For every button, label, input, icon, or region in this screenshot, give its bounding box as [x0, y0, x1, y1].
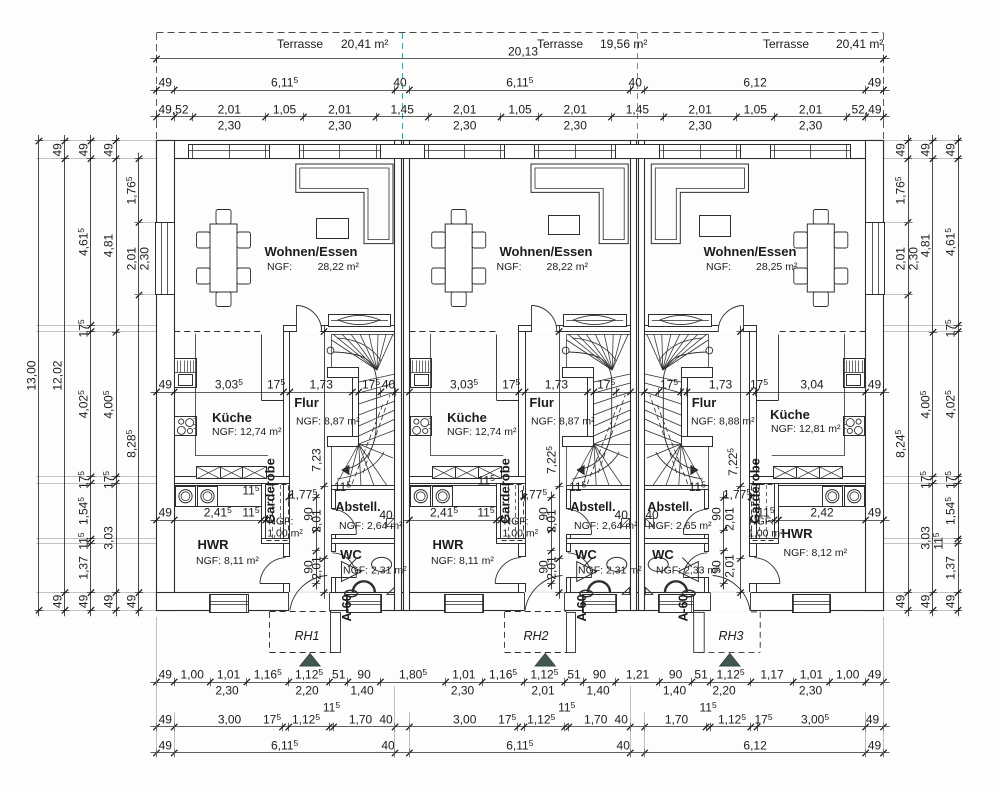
- svg-text:Terrasse: Terrasse: [277, 37, 323, 51]
- svg-text:49: 49: [919, 594, 933, 608]
- svg-text:51: 51: [567, 668, 581, 682]
- washbasin RH2: [607, 557, 627, 571]
- window bottom BW2: [347, 595, 382, 613]
- wall living south RH1: [322, 326, 395, 332]
- svg-text:1,00: 1,00: [836, 668, 860, 682]
- svg-text:NGF: 8,12 m²: NGF: 8,12 m²: [784, 547, 848, 559]
- wall storage/wc RH3: [645, 539, 709, 544]
- svg-text:49: 49: [159, 739, 173, 753]
- svg-text:1,70: 1,70: [584, 713, 608, 727]
- wall living south RH2: [557, 326, 631, 332]
- interior dim kitchen/hall RH2: [403, 392, 636, 394]
- svg-text:2,01: 2,01: [310, 556, 324, 580]
- wall living/kitchen RH1: [284, 326, 297, 332]
- svg-text:40: 40: [615, 508, 629, 522]
- stair dashed cut lines RH3: [650, 395, 677, 473]
- interior dim HWR RH1: [151, 520, 272, 522]
- svg-text:1,01: 1,01: [800, 668, 824, 682]
- washer dryer RH3: [779, 486, 866, 507]
- svg-text:13,00: 13,00: [25, 360, 39, 390]
- wall HWR/wardrobe RH3: [775, 484, 779, 539]
- svg-text:2,30: 2,30: [799, 119, 823, 133]
- svg-text:2,20: 2,20: [712, 684, 736, 698]
- hall doors dim RH3: [723, 492, 725, 590]
- svg-text:28,22 m²: 28,22 m²: [318, 261, 360, 273]
- svg-text:Garderobe: Garderobe: [498, 458, 513, 524]
- dimension chain bottom rooms: [151, 726, 890, 728]
- dimension chain top windows: [151, 116, 890, 118]
- chairs RH2: [451, 210, 466, 225]
- washbasin RH3: [648, 557, 668, 571]
- wall storage top RH1: [332, 486, 395, 490]
- svg-text:2,01: 2,01: [688, 103, 712, 117]
- svg-text:51: 51: [694, 668, 708, 682]
- porch dashed RH1: [269, 612, 271, 653]
- svg-text:90: 90: [709, 560, 723, 574]
- kitchen base counter RH2: [433, 467, 456, 479]
- extension lines left: [36, 140, 157, 142]
- svg-text:NGF: 12,81 m²: NGF: 12,81 m²: [771, 423, 841, 435]
- svg-text:A-60: A-60: [676, 594, 690, 621]
- wall living/kitchen RH2: [519, 326, 532, 332]
- outer wall top: [157, 141, 884, 159]
- dimension chain overall width 20,13: [151, 58, 890, 60]
- kitchen countertop edge RH2: [430, 334, 432, 456]
- svg-text:NGF: 12,74 m²: NGF: 12,74 m²: [212, 426, 282, 438]
- door living-hall RH3: [719, 326, 744, 332]
- svg-text:40: 40: [645, 508, 659, 522]
- outer wall left: [157, 141, 175, 611]
- stair walking line RH3: [663, 352, 707, 470]
- svg-text:49: 49: [159, 506, 173, 520]
- svg-text:49: 49: [894, 143, 908, 157]
- svg-text:2,30: 2,30: [453, 119, 477, 133]
- coffee table RH1: [317, 219, 349, 239]
- stairs RH3: [645, 334, 709, 336]
- terrace dashed outline top: [157, 32, 884, 34]
- toilet RH2: [577, 562, 597, 582]
- svg-text:2,30: 2,30: [215, 684, 239, 698]
- wall wardrobe bottom RH1: [262, 539, 290, 544]
- interior dim kitchen/hall RH3: [638, 392, 889, 394]
- svg-text:1,05: 1,05: [273, 103, 297, 117]
- window top W2: [300, 145, 381, 159]
- svg-text:NGF:: NGF:: [267, 261, 292, 273]
- svg-text:49: 49: [51, 143, 65, 157]
- svg-text:49: 49: [77, 143, 91, 157]
- svg-text:49: 49: [868, 76, 882, 90]
- svg-text:90: 90: [357, 668, 371, 682]
- svg-text:Wohnen/Essen: Wohnen/Essen: [500, 244, 593, 259]
- svg-text:1,37: 1,37: [77, 556, 91, 580]
- wardrobe closet RH3: [752, 485, 775, 541]
- sideboard with bowl RH1: [329, 315, 391, 327]
- dining table RH1: [210, 224, 237, 292]
- window top W1: [189, 145, 270, 159]
- chairs RH3: [813, 210, 828, 225]
- door WC RH3: [683, 577, 708, 579]
- bucket RH2: [580, 590, 593, 597]
- party wall RH2/RH3 leaf B: [639, 141, 645, 611]
- window bottom BW4: [583, 595, 617, 613]
- kitchen base counter RH3: [820, 467, 843, 479]
- svg-text:1,00 m²: 1,00 m²: [748, 528, 784, 540]
- dining table RH3: [807, 224, 834, 292]
- svg-text:Flur: Flur: [529, 395, 554, 410]
- svg-text:49: 49: [125, 594, 139, 608]
- svg-text:4,81: 4,81: [919, 233, 933, 257]
- stair spine wall RH1: [328, 368, 359, 378]
- svg-text:2,30: 2,30: [451, 684, 475, 698]
- svg-text:1,45: 1,45: [391, 103, 415, 117]
- party wall RH1/RH2 leaf B: [404, 141, 410, 611]
- window top W5: [660, 145, 741, 159]
- window bottom BW3: [445, 595, 484, 613]
- svg-text:NGF: 2,64 m²: NGF: 2,64 m²: [574, 520, 638, 532]
- porch marker triangle RH1: [300, 654, 320, 667]
- door HWR RH3: [753, 583, 780, 585]
- stair spine wall RH2: [563, 368, 594, 378]
- svg-text:2,01: 2,01: [531, 684, 555, 698]
- wall hall/storage-wc RH1: [332, 486, 336, 509]
- svg-text:Abstell.: Abstell.: [335, 500, 380, 514]
- top wall pier 3: [505, 145, 535, 159]
- svg-text:2,01: 2,01: [453, 103, 477, 117]
- svg-text:1,70: 1,70: [665, 713, 689, 727]
- wall living/kitchen RH3: [744, 326, 757, 332]
- stair walking line RH2: [568, 352, 612, 470]
- svg-text:49: 49: [159, 668, 173, 682]
- svg-text:3,00: 3,00: [453, 713, 477, 727]
- interior dim HWR RH2: [403, 520, 506, 522]
- svg-text:Flur: Flur: [294, 395, 319, 410]
- boiler semicircle RH3: [665, 581, 687, 592]
- stair handrail circle RH2: [562, 347, 569, 354]
- svg-text:RH1: RH1: [294, 629, 319, 643]
- duct square RH1: [387, 519, 395, 527]
- porch dashed RH2: [504, 612, 506, 653]
- svg-text:28,22 m²: 28,22 m²: [547, 261, 589, 273]
- svg-text:Küche: Küche: [212, 410, 252, 425]
- stairs RH1: [332, 334, 396, 336]
- window top W3: [425, 145, 505, 159]
- svg-text:49: 49: [868, 668, 882, 682]
- door WC RH1: [332, 577, 357, 579]
- svg-text:1,00 m²: 1,00 m²: [503, 528, 539, 540]
- wall kitchen/HWR RH3: [750, 477, 866, 484]
- svg-text:Küche: Küche: [447, 410, 487, 425]
- door storage RH3: [683, 534, 708, 536]
- svg-text:Terrasse: Terrasse: [537, 37, 583, 51]
- svg-text:40: 40: [617, 739, 631, 753]
- svg-text:Küche: Küche: [770, 407, 810, 422]
- svg-text:1,70: 1,70: [349, 713, 373, 727]
- svg-text:49: 49: [894, 594, 908, 608]
- dimension chain left rooms B: [116, 135, 118, 616]
- dimension chain house widths 6,11/40: [151, 90, 890, 92]
- svg-text:1,45: 1,45: [626, 103, 650, 117]
- left window edge extension lines: [134, 222, 157, 224]
- svg-text:49: 49: [919, 143, 933, 157]
- boiler semicircle RH2: [588, 581, 610, 592]
- washer dryer RH1: [175, 486, 262, 507]
- svg-text:Flur: Flur: [692, 395, 717, 410]
- door WC RH2: [567, 577, 592, 579]
- washer dryer RH2: [410, 486, 497, 507]
- kitchen base counter RH1: [197, 467, 221, 479]
- shower corner RH2: [622, 587, 629, 594]
- svg-text:20,41 m²: 20,41 m²: [341, 37, 388, 51]
- kitchen cooktop RH3: [844, 417, 865, 436]
- window top W6: [771, 145, 851, 159]
- wardrobe closet RH2: [501, 485, 524, 541]
- wall kitchen/hall upper RH3: [750, 332, 757, 557]
- svg-text:3,04: 3,04: [800, 378, 824, 392]
- party wall RH2/RH3 leaf A: [631, 141, 637, 611]
- svg-text:1,17: 1,17: [760, 668, 784, 682]
- svg-text:1,00: 1,00: [181, 668, 205, 682]
- wall kitchen/hall lower RH1: [284, 584, 290, 593]
- kitchen cooktop RH2: [411, 417, 432, 436]
- svg-text:49: 49: [159, 713, 173, 727]
- terrace dashed right edge: [883, 33, 885, 141]
- svg-text:Abstell.: Abstell.: [570, 500, 615, 514]
- svg-text:1,00 m²: 1,00 m²: [267, 528, 303, 540]
- bottom extension lines: [156, 617, 158, 757]
- porch dashed RH3: [759, 612, 761, 653]
- chairs RH1: [216, 210, 231, 225]
- porch pillar RH1: [331, 613, 341, 653]
- svg-text:WC: WC: [340, 547, 362, 562]
- svg-text:A-60: A-60: [575, 594, 589, 621]
- dining table RH2: [445, 224, 472, 292]
- bucket RH1: [345, 590, 358, 597]
- stair spine wall RH3: [682, 368, 713, 378]
- svg-text:40: 40: [379, 508, 393, 522]
- svg-text:2,30: 2,30: [799, 684, 823, 698]
- svg-text:40: 40: [381, 739, 395, 753]
- duct square RH2: [622, 519, 630, 527]
- svg-text:1,01: 1,01: [452, 668, 476, 682]
- coffee table RH3: [700, 216, 731, 237]
- open kitchen dashed edge RH1: [174, 331, 261, 333]
- svg-text:2,30: 2,30: [138, 247, 152, 271]
- svg-text:2,30: 2,30: [688, 119, 712, 133]
- corner sofa RH2: [531, 164, 628, 244]
- window bottom BW5: [659, 595, 694, 613]
- duct shaft kitchen RH2: [496, 335, 498, 401]
- svg-text:20,13: 20,13: [508, 45, 538, 59]
- dimension chain left window: [138, 153, 140, 617]
- svg-text:49: 49: [868, 378, 882, 392]
- party wall axis 1 (teal dashed): [402, 33, 404, 141]
- duct shaft kitchen RH1: [261, 335, 263, 401]
- window bottom BW1: [210, 595, 249, 613]
- entrance door RH3: [710, 592, 751, 611]
- svg-text:2,30: 2,30: [218, 119, 242, 133]
- svg-text:49: 49: [51, 594, 65, 608]
- svg-text:WC: WC: [575, 547, 597, 562]
- svg-text:2,01: 2,01: [328, 103, 352, 117]
- top wall pier 1: [270, 145, 300, 159]
- sideboard with bowl RH3: [649, 315, 712, 327]
- svg-text:RH2: RH2: [523, 629, 548, 643]
- svg-text:20,41 m²: 20,41 m²: [836, 37, 883, 51]
- svg-text:Terrasse: Terrasse: [763, 37, 809, 51]
- svg-text:NGF:: NGF:: [706, 261, 731, 273]
- svg-text:90: 90: [593, 668, 607, 682]
- svg-text:NGF:: NGF:: [504, 516, 529, 528]
- svg-text:49: 49: [77, 594, 91, 608]
- wall kitchen/HWR RH2: [410, 477, 526, 484]
- svg-text:49: 49: [944, 143, 958, 157]
- svg-text:NGF: 8,87 m²: NGF: 8,87 m²: [531, 416, 595, 428]
- svg-text:49,52: 49,52: [158, 103, 188, 117]
- wall HWR/wardrobe RH2: [497, 484, 501, 539]
- svg-text:1,73: 1,73: [545, 378, 569, 392]
- svg-text:2,01: 2,01: [894, 247, 908, 271]
- svg-text:51: 51: [332, 668, 346, 682]
- svg-text:52,49: 52,49: [851, 103, 881, 117]
- window right wall living RH3: [866, 223, 885, 295]
- svg-text:49: 49: [159, 76, 173, 90]
- duct square RH3: [646, 519, 654, 527]
- door storage RH1: [332, 534, 357, 536]
- svg-text:HWR: HWR: [197, 537, 229, 552]
- dimension chain bottom overall: [151, 752, 890, 754]
- door storage RH2: [567, 534, 592, 536]
- svg-text:7,23: 7,23: [310, 448, 324, 472]
- svg-text:2,20: 2,20: [295, 684, 319, 698]
- svg-text:90: 90: [709, 507, 723, 521]
- wall storage top RH2: [567, 486, 631, 490]
- svg-text:NGF: 8,11 m²: NGF: 8,11 m²: [431, 555, 494, 567]
- svg-text:1,40: 1,40: [350, 684, 374, 698]
- dimension chain left 12,02: [64, 135, 66, 616]
- svg-text:A-60: A-60: [340, 594, 354, 621]
- svg-text:49: 49: [944, 594, 958, 608]
- entrance door RH2: [524, 592, 565, 611]
- dimension chain right rooms B: [932, 135, 934, 616]
- svg-text:90: 90: [669, 668, 683, 682]
- svg-text:NGF:: NGF:: [497, 261, 522, 273]
- wall kitchen/hall lower RH3: [750, 584, 757, 593]
- svg-text:Garderobe: Garderobe: [262, 458, 277, 524]
- svg-text:2,01: 2,01: [564, 103, 588, 117]
- svg-text:49: 49: [866, 713, 880, 727]
- corner sofa RH1: [296, 164, 393, 244]
- outer wall bottom: [157, 593, 884, 611]
- door living-hall RH2: [532, 326, 557, 332]
- wall kitchen/hall upper RH1: [284, 332, 290, 557]
- svg-text:28,25 m²: 28,25 m²: [756, 261, 798, 273]
- top wall pier 2: [381, 145, 425, 159]
- svg-text:2,01: 2,01: [218, 103, 242, 117]
- window top W4: [535, 145, 616, 159]
- right window edge extension lines: [884, 222, 914, 224]
- svg-text:1,40: 1,40: [586, 684, 610, 698]
- wall hall/storage-wc RH2: [567, 486, 571, 509]
- window left wall living RH1: [156, 223, 175, 295]
- svg-text:1,21: 1,21: [626, 668, 650, 682]
- svg-text:49: 49: [159, 378, 173, 392]
- wall storage top RH3: [645, 486, 709, 490]
- svg-text:NGF: 2,31 m²: NGF: 2,31 m²: [343, 565, 407, 577]
- hall doors dim RH1: [316, 492, 318, 590]
- svg-text:2,01: 2,01: [310, 509, 324, 533]
- stair dashed cut lines RH1: [363, 395, 390, 473]
- party wall RH1/RH2 leaf A: [395, 141, 402, 611]
- dimension chain left 13,00: [38, 135, 40, 616]
- wall wardrobe bottom RH3: [750, 539, 779, 544]
- svg-text:6,12: 6,12: [743, 739, 767, 753]
- top wall pier 4: [616, 145, 660, 159]
- kitchen countertop edge RH1: [195, 334, 197, 456]
- svg-text:40: 40: [382, 378, 396, 392]
- extension lines right: [884, 140, 962, 142]
- open kitchen dashed edge RH3: [778, 331, 865, 333]
- kitchen tall unit RH2: [411, 359, 432, 388]
- dimension chain right rooms A: [958, 135, 960, 616]
- shower corner RH1: [387, 587, 394, 594]
- stairs RH2: [567, 334, 631, 336]
- stair handrail circle RH3: [706, 347, 713, 354]
- svg-text:2,01: 2,01: [722, 554, 736, 578]
- svg-text:NGF: 8,11 m²: NGF: 8,11 m²: [196, 555, 259, 567]
- svg-text:2,42: 2,42: [810, 506, 834, 520]
- svg-text:1,40: 1,40: [663, 684, 687, 698]
- svg-text:49: 49: [102, 143, 116, 157]
- svg-text:12,02: 12,02: [51, 360, 65, 390]
- svg-text:NGF: 12,74 m²: NGF: 12,74 m²: [447, 426, 517, 438]
- svg-text:40: 40: [393, 76, 407, 90]
- window bottom BW6: [793, 595, 831, 613]
- porch marker triangle RH2: [535, 654, 555, 667]
- svg-text:2,01: 2,01: [722, 507, 736, 531]
- boiler semicircle RH1: [353, 581, 375, 592]
- svg-text:NGF:: NGF:: [268, 516, 293, 528]
- svg-text:NGF: 2,31 m²: NGF: 2,31 m²: [578, 565, 642, 577]
- washbasin RH1: [372, 557, 392, 571]
- svg-text:1,37: 1,37: [944, 556, 958, 580]
- bucket RH3: [683, 590, 696, 597]
- kitchen tall unit RH3: [844, 359, 865, 388]
- svg-text:HWR: HWR: [781, 526, 813, 541]
- svg-text:1,01: 1,01: [217, 668, 241, 682]
- svg-text:2,01: 2,01: [545, 556, 559, 580]
- svg-text:NGF: 8,87 m²: NGF: 8,87 m²: [296, 416, 360, 428]
- stair walking line RH1: [333, 352, 377, 470]
- stair dashed cut lines RH2: [598, 395, 625, 473]
- wall storage/wc RH2: [567, 539, 631, 544]
- svg-text:19,56 m²: 19,56 m²: [600, 37, 647, 51]
- wall HWR/wardrobe RH1: [262, 484, 266, 539]
- svg-text:1,05: 1,05: [508, 103, 532, 117]
- porch pillar RH2: [567, 613, 576, 653]
- svg-text:NGF: 8,88 m²: NGF: 8,88 m²: [691, 416, 755, 428]
- toilet RH1: [342, 562, 362, 582]
- entrance door RH1: [289, 592, 330, 611]
- shower corner RH3: [645, 587, 652, 594]
- svg-text:1,73: 1,73: [709, 378, 733, 392]
- garderobe width dim RH1: [288, 493, 290, 501]
- svg-text:4,81: 4,81: [102, 233, 116, 257]
- svg-text:40: 40: [629, 76, 643, 90]
- wall living south RH3: [645, 326, 719, 332]
- svg-text:2,30: 2,30: [328, 119, 352, 133]
- interior dim HWR RH3: [768, 520, 889, 522]
- svg-text:1,05: 1,05: [744, 103, 768, 117]
